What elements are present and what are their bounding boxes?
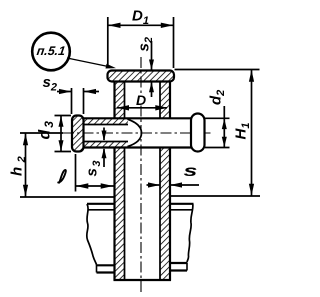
dimension l <box>58 154 113 192</box>
right nozzle flange outline <box>191 114 205 152</box>
nozzle tube bottom inner line <box>84 141 129 143</box>
svg-text:s: s <box>184 162 198 179</box>
main pipe right wall lower <box>160 148 170 281</box>
nozzle tube bottom outer line <box>84 146 192 148</box>
vertical center line <box>140 57 142 95</box>
dimension h2 <box>9 133 115 197</box>
main pipe right wall upper <box>160 81 170 119</box>
dimension s2 top <box>136 37 156 97</box>
dimension s3 <box>84 128 107 177</box>
top flange <box>108 71 175 82</box>
vessel wall right piece <box>170 204 194 271</box>
main pipe left wall lower <box>115 148 125 281</box>
main pipe left wall upper <box>115 81 125 119</box>
dimension H1 <box>171 70 260 197</box>
horizontal nozzle center line <box>63 132 212 134</box>
pipe bottom end line <box>114 279 172 281</box>
left nozzle flange <box>72 116 84 152</box>
dimension d2 <box>205 90 230 148</box>
callout circle p.5.1 <box>32 33 70 71</box>
dimension d3 <box>37 116 72 152</box>
dimension s <box>147 162 200 187</box>
dimension s2 left <box>43 74 100 114</box>
svg-text:п.5.1: п.5.1 <box>36 44 66 58</box>
leader line <box>67 58 113 68</box>
dimension D1 <box>108 8 174 69</box>
left nozzle tube hatched walls <box>84 118 129 147</box>
svg-text:D: D <box>136 92 146 108</box>
dimension D <box>117 92 168 111</box>
nozzle tube top inner line <box>84 124 129 126</box>
nozzle tube top outer line <box>84 117 192 119</box>
nozzle curved end <box>128 119 142 146</box>
vessel wall left piece <box>87 204 115 273</box>
